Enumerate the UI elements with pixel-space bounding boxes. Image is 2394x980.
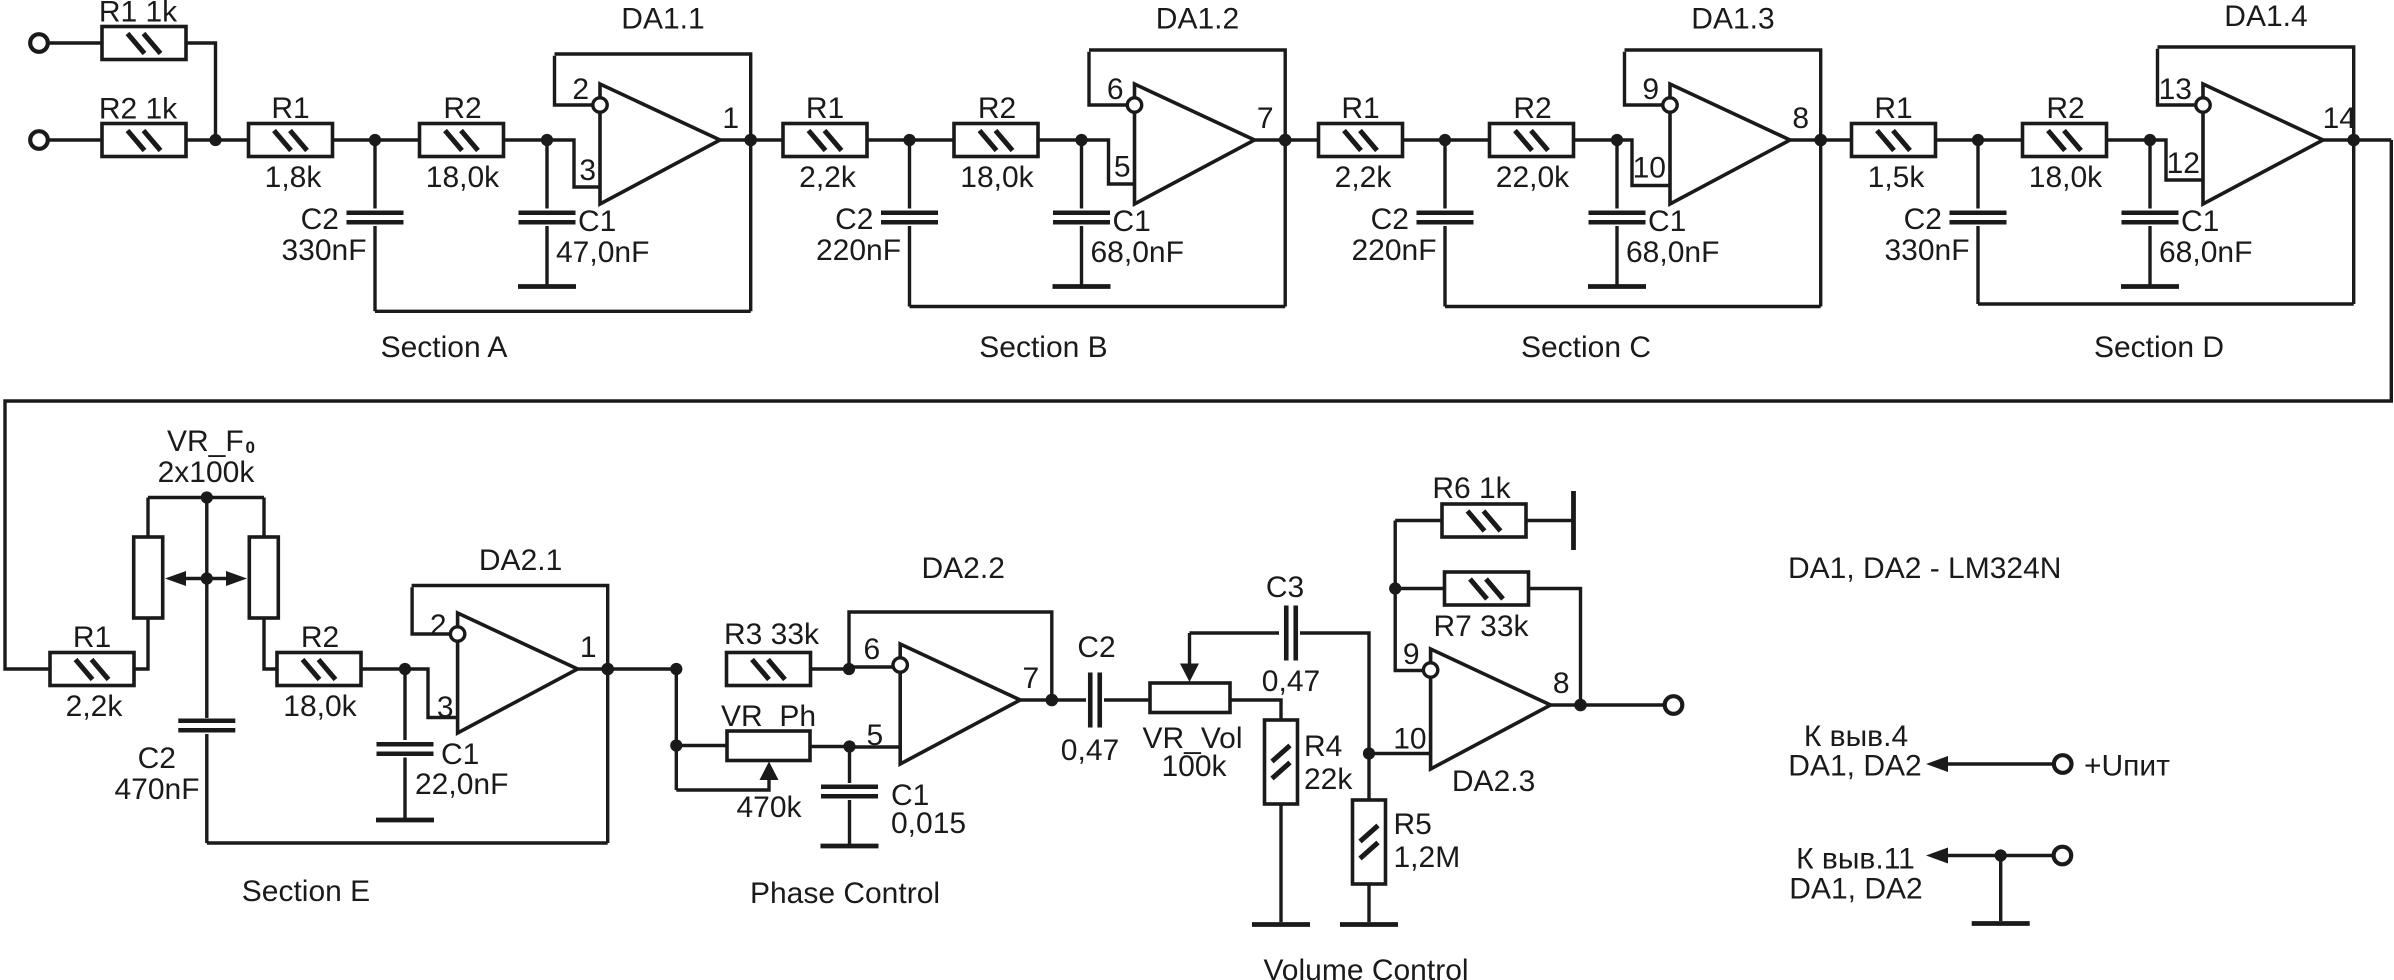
feedback bottom wire DA1.4 (1978, 302, 2354, 305)
section DA1.1: resistor R1 1,8k (249, 124, 333, 157)
svg-text:C1: C1 (2181, 205, 2219, 238)
svg-text:+Uпит: +Uпит (2084, 750, 2170, 783)
svg-text:К выв.4: К выв.4 (1804, 720, 1908, 753)
wire pin10 node down to R5 (1367, 754, 1370, 801)
svg-text:R2: R2 (2046, 92, 2084, 125)
svg-text:18,0k: 18,0k (2029, 161, 2103, 194)
capacitor C1 DA1.2 (1053, 210, 1110, 215)
junction R7 branch node (1389, 582, 1401, 594)
junction input node (209, 134, 221, 146)
wire node2 to non-inverting input DA1.4 (2150, 140, 2203, 180)
svg-text:VR_F: VR_F (167, 425, 244, 458)
svg-text:R1: R1 (806, 92, 844, 125)
svg-text:220nF: 220nF (1351, 234, 1436, 267)
capacitor C1 DA1.4 (2122, 210, 2179, 215)
feedback bottom wire DA1.1 (375, 310, 751, 313)
ground bar of C1 phase control (821, 844, 879, 849)
op-amp DA2.1 inverting input circle (450, 627, 464, 641)
op-amp DA1.3 inverting input circle (1663, 98, 1677, 112)
capacitor C1 22,0nF wire section E (403, 669, 406, 740)
junction phase input lower (670, 739, 682, 751)
resistor R2 18,0k section E (277, 653, 361, 686)
svg-text:330nF: 330nF (281, 234, 366, 267)
wire R2 to node2 DA1.3 (1574, 138, 1618, 141)
junction node section E (399, 663, 411, 675)
output junction DA2.1 (601, 663, 614, 676)
wire VR_Ph right to pin5 node (810, 745, 850, 748)
wire node2 to non-inverting input DA1.1 (547, 140, 600, 187)
wire R4 to ground (1279, 804, 1282, 922)
svg-text:Section C: Section C (1521, 331, 1651, 364)
svg-text:5: 5 (867, 719, 884, 752)
svg-text:7: 7 (1023, 662, 1040, 695)
svg-text:12: 12 (2167, 147, 2200, 180)
wire C1 to ground bar section E (403, 758, 406, 819)
svg-text:C3: C3 (1266, 571, 1304, 604)
capacitor C1 DA1.3 (1589, 210, 1646, 215)
resistor R2 1k (102, 124, 186, 157)
svg-text:14: 14 (2323, 102, 2356, 135)
output wire DA2.2 (1020, 698, 1086, 701)
wire C2 to feedback bottom DA1.3 (1443, 226, 1446, 307)
wire IN1 to R1 1k (48, 41, 102, 44)
power terminal +Upit (2054, 755, 2072, 773)
wire R2 to node2 DA1.2 (1038, 138, 1082, 141)
svg-text:100k: 100k (1161, 750, 1227, 783)
section DA1.3: resistor R2 22,0k (1490, 124, 1574, 157)
svg-text:18,0k: 18,0k (426, 161, 500, 194)
wire VR_Vol wiper to C3 (1190, 631, 1280, 634)
svg-text:DA2.2: DA2.2 (922, 552, 1005, 585)
wire to R6 (1395, 519, 1442, 522)
svg-text:1,5k: 1,5k (1868, 161, 1926, 194)
wire VR_Vol right to R4 (1230, 700, 1281, 720)
svg-text:R1: R1 (1341, 92, 1379, 125)
svg-text:C2: C2 (835, 203, 873, 236)
wire C3 to pin10 node (1300, 633, 1369, 754)
junction node1 DA1.4 (1972, 134, 1984, 146)
section DA1.4: resistor R1 1,5k (1852, 124, 1936, 157)
feedback bottom wire section E (207, 841, 608, 844)
svg-text:2: 2 (430, 609, 447, 642)
junction pin5 node (843, 740, 855, 752)
capacitor C2 DA1.3 (1417, 210, 1474, 215)
potentiometer VR_Ph (727, 731, 810, 761)
svg-text:R1: R1 (73, 621, 111, 654)
ground bar power (1972, 921, 2030, 926)
section DA1.2: resistor R2 18,0k (954, 124, 1038, 157)
svg-text:R3 33k: R3 33k (724, 618, 820, 651)
op-amp DA1.4 inverting input circle (2196, 98, 2210, 112)
ground arrow wire (1944, 854, 2054, 857)
svg-text:R2: R2 (1513, 92, 1551, 125)
op-amp DA1.2 triangle (1135, 84, 1255, 204)
capacitor C2 0,47 series (1088, 673, 1093, 728)
output junction DA1.1 (744, 134, 757, 147)
junction VR_F0 top node (201, 491, 213, 503)
junction pin10 node (1363, 747, 1375, 759)
svg-text:R2: R2 (978, 92, 1016, 125)
svg-text:DA1.3: DA1.3 (1691, 3, 1774, 36)
feedback top and right wire DA1.1 (555, 54, 751, 311)
svg-text:1: 1 (580, 631, 597, 664)
op-amp DA2.1 triangle (458, 613, 578, 733)
capacitor C1 68,0nF DA1.4 upper wire (2148, 140, 2151, 209)
svg-text:К выв.11: К выв.11 (1796, 843, 1915, 876)
svg-text:C2: C2 (301, 203, 339, 236)
svg-text:R4: R4 (1304, 730, 1342, 763)
wire R1 to node1 DA1.1 (333, 138, 421, 141)
svg-text:1,8k: 1,8k (265, 161, 323, 194)
wire IN2 to R2 1k (48, 138, 102, 141)
junction node2 DA1.2 (1075, 134, 1087, 146)
potentiometer VR_Vol (1150, 683, 1230, 713)
top node wire VR_F0 (148, 496, 264, 499)
op-amp DA1.2 inverting input stub and feedback left wire (1089, 52, 1127, 105)
svg-text:220nF: 220nF (816, 234, 901, 267)
svg-text:R2: R2 (301, 621, 339, 654)
ground bar R4 (1252, 922, 1310, 927)
junction ground node (1995, 849, 2007, 861)
VR_Ph wiper arrow (676, 776, 769, 790)
capacitor C1 47,0nF DA1.1 upper wire (545, 140, 548, 209)
wire R2 to node2 DA1.1 (504, 138, 548, 141)
svg-text:C1: C1 (578, 205, 616, 238)
svg-text:DA2.1: DA2.1 (479, 544, 562, 577)
op-amp DA1.3 triangle (1670, 84, 1790, 204)
op-amp DA2.1 inverting input stub and feedback left wire (412, 587, 450, 634)
svg-text:C2: C2 (1904, 203, 1942, 236)
wire R3 to pin6 node (811, 667, 850, 670)
wire right pot bottom to R2 (264, 618, 277, 669)
svg-text:DA2.3: DA2.3 (1452, 765, 1535, 798)
section DA1.1: resistor R2 18,0k (420, 124, 504, 157)
junction node2 DA1.4 (2144, 134, 2156, 146)
svg-text:9: 9 (1642, 73, 1659, 106)
svg-text:10: 10 (1633, 152, 1666, 185)
wire R1 to node1 DA1.2 (867, 138, 955, 141)
svg-text:2,2k: 2,2k (799, 161, 857, 194)
svg-text:0: 0 (246, 438, 255, 457)
op-amp DA2.3 inverting input circle (1423, 663, 1437, 677)
wire wrap-around from section D output to section E input (5, 140, 2391, 669)
wire C2 to feedback bottom DA1.4 (1976, 226, 1979, 304)
wire node to non-inverting input DA2.1 (405, 669, 458, 718)
svg-text:C2: C2 (138, 742, 176, 775)
op-amp DA1.4 inverting input stub and feedback left wire (2158, 49, 2196, 105)
terminal bar R6 (1571, 491, 1576, 550)
section DA1.3: resistor R1 2,2k (1319, 124, 1403, 157)
svg-text:C2: C2 (1371, 203, 1409, 236)
svg-text:R2: R2 (443, 92, 481, 125)
junction phase input upper (670, 663, 682, 675)
svg-text:VR_Ph: VR_Ph (721, 700, 816, 733)
wire inverting input DA2.3 up to R6/R7 (1395, 521, 1422, 671)
svg-text:2,2k: 2,2k (66, 690, 124, 723)
output wire DA1.1 (720, 138, 784, 141)
ground bar of C1 DA1.1 (518, 284, 576, 289)
svg-text:Section D: Section D (2094, 331, 2224, 364)
ground wire down (1999, 856, 2002, 922)
svg-text:DA1, DA2: DA1, DA2 (1788, 750, 1921, 783)
svg-text:470k: 470k (736, 791, 802, 824)
VR_F0 wiper double arrow (184, 577, 230, 580)
resistor R1 1k (102, 27, 186, 60)
svg-text:1: 1 (722, 102, 739, 135)
capacitor C2 330nF DA1.4 upper wire (1976, 140, 1979, 209)
output wire DA1.2 (1255, 138, 1319, 141)
capacitor C2 DA1.2 (881, 210, 938, 215)
svg-text:Section A: Section A (381, 331, 508, 364)
wire C2 to feedback bottom DA1.1 (373, 226, 376, 311)
ground bar of C1 section E (376, 818, 434, 823)
capacitor C1 68,0nF DA1.2 upper wire (1080, 140, 1083, 209)
capacitor C3 0,47 series (1284, 606, 1289, 661)
junction VR_F0 wiper node (201, 572, 213, 584)
dual potentiometer VR_F0 left element (134, 537, 163, 618)
wire to R7 (1395, 587, 1444, 590)
VR_F0 centre wire down to C2 (205, 498, 208, 719)
wire R2 1k to junction (186, 138, 249, 141)
output junction DA1.3 (1814, 134, 1827, 147)
output junction DA2.2 (1046, 694, 1059, 707)
capacitor C2 330nF DA1.1 upper wire (373, 140, 376, 209)
wire pin5 node to DA2.2 (850, 745, 901, 748)
svg-text:R1: R1 (271, 92, 309, 125)
junction node2 DA1.1 (541, 134, 553, 146)
feedback top and right wire DA1.4 (2158, 47, 2354, 304)
capacitor C1 68,0nF DA1.3 upper wire (1615, 140, 1618, 209)
wire C2 to feedback bottom section E (205, 734, 208, 843)
svg-text:22,0nF: 22,0nF (415, 768, 508, 801)
svg-text:2x100k: 2x100k (158, 456, 256, 489)
svg-text:22k: 22k (1304, 763, 1353, 796)
op-amp DA2.2 inverting input circle (893, 658, 907, 672)
svg-text:10: 10 (1393, 723, 1426, 756)
op-amp DA2.3 triangle (1431, 649, 1551, 769)
wire left pot top to node (146, 498, 149, 538)
wire R2 to node section E (361, 667, 405, 670)
capacitor C2 DA1.4 (1950, 210, 2007, 215)
op-amp DA1.3 inverting input stub and feedback left wire (1625, 52, 1663, 105)
svg-text:R7 33k: R7 33k (1433, 610, 1529, 643)
svg-text:7: 7 (1257, 102, 1274, 135)
capacitor C2 220nF DA1.2 upper wire (908, 140, 911, 209)
output terminal (1665, 696, 1683, 714)
svg-text:8: 8 (1553, 667, 1570, 700)
svg-text:6: 6 (1107, 73, 1124, 106)
svg-text:DA1, DA2 - LM324N: DA1, DA2 - LM324N (1788, 552, 2061, 585)
output junction DA2.3 (1574, 699, 1587, 712)
wire C2 to feedback bottom DA1.2 (908, 226, 911, 307)
ground terminal (2054, 847, 2072, 865)
wire pin10 node to DA2.3 (1369, 752, 1431, 755)
input terminal IN1 (30, 34, 48, 52)
svg-text:18,0k: 18,0k (960, 161, 1034, 194)
svg-text:0,47: 0,47 (1262, 665, 1320, 698)
wire C1 to ground bar phase control (848, 800, 851, 844)
svg-text:470nF: 470nF (114, 773, 199, 806)
capacitor C1 phase control (821, 784, 878, 789)
junction node1 DA1.2 (903, 134, 915, 146)
junction node2 DA1.3 (1611, 134, 1623, 146)
VR_Vol wiper arrow (1188, 633, 1191, 666)
svg-text:C1: C1 (1113, 205, 1151, 238)
wire C1 to ground bar DA1.2 (1080, 226, 1083, 285)
svg-text:47,0nF: 47,0nF (556, 236, 649, 269)
feedback bottom wire DA1.3 (1445, 305, 1821, 308)
svg-text:68,0nF: 68,0nF (1626, 236, 1719, 269)
resistor R6 1k (1442, 504, 1526, 537)
svg-text:DA1.2: DA1.2 (1156, 3, 1239, 36)
wire node2 to non-inverting input DA1.3 (1617, 140, 1670, 186)
wire VR_Ph left terminal (676, 744, 727, 747)
svg-text:Section E: Section E (242, 875, 370, 908)
svg-text:2: 2 (572, 73, 589, 106)
power arrow +Upit (1944, 762, 2054, 765)
svg-text:0,015: 0,015 (891, 807, 966, 840)
svg-text:13: 13 (2159, 73, 2192, 106)
svg-text:5: 5 (1114, 151, 1131, 184)
op-amp DA1.4 triangle (2203, 84, 2323, 204)
svg-text:1,2M: 1,2M (1394, 841, 1461, 874)
resistor R4 22k (1265, 720, 1298, 804)
resistor R1 2,2k section E (50, 653, 134, 686)
output wire DA1.3 (1790, 138, 1854, 141)
wire C1 to ground bar DA1.4 (2148, 226, 2151, 285)
feedback top and right wire DA2.2 (849, 612, 1052, 700)
op-amp DA1.1 inverting input circle (593, 98, 607, 112)
feedback top and right wire DA1.3 (1625, 50, 1821, 307)
wire R2 to node2 DA1.4 (2107, 138, 2151, 141)
wire right pot top to node (262, 498, 265, 538)
wire R6 to supply bar (1526, 519, 1574, 522)
op-amp DA2.2 triangle (900, 644, 1020, 764)
wire down to VR_Ph branch (675, 669, 678, 790)
dual potentiometer VR_F0 right element (249, 537, 278, 618)
wire R1 to node1 DA1.3 (1403, 138, 1491, 141)
junction node1 DA1.1 (369, 134, 381, 146)
svg-text:6: 6 (864, 633, 881, 666)
output wire DA2.3 (1551, 703, 1665, 706)
wire pin6 node to inverting input DA2.2 (849, 665, 892, 668)
ground bar of C1 DA1.3 (1588, 284, 1646, 289)
ground bar of C1 DA1.2 (1053, 284, 1111, 289)
output junction DA1.4 (2347, 134, 2360, 147)
capacitor C2 220nF DA1.3 upper wire (1443, 140, 1446, 209)
svg-text:R5: R5 (1394, 808, 1432, 841)
wire C1 to ground bar DA1.3 (1615, 226, 1618, 285)
svg-text:330nF: 330nF (1884, 234, 1969, 267)
svg-text:C1: C1 (441, 738, 479, 771)
svg-text:R2 1k: R2 1k (99, 93, 178, 126)
wire C1 to ground bar DA1.1 (545, 226, 548, 285)
svg-text:3: 3 (579, 154, 596, 187)
capacitor C2 DA1.1 (347, 210, 404, 215)
section DA1.2: resistor R1 2,2k (783, 124, 867, 157)
svg-text:DA1, DA2: DA1, DA2 (1789, 873, 1922, 906)
op-amp DA1.1 triangle (600, 84, 720, 204)
svg-text:Volume Control: Volume Control (1263, 954, 1468, 980)
svg-text:R1: R1 (1874, 92, 1912, 125)
wire node2 to non-inverting input DA1.2 (1082, 140, 1135, 184)
op-amp DA1.1 inverting input stub and feedback left wire (555, 56, 593, 105)
svg-text:68,0nF: 68,0nF (1091, 236, 1184, 269)
svg-text:C1: C1 (1648, 205, 1686, 238)
op-amp DA1.2 inverting input circle (1127, 98, 1141, 112)
capacitor C1 0,015 wire (848, 747, 851, 784)
wire C2 to VR_Vol (1104, 698, 1150, 701)
resistor R7 33k (1445, 572, 1529, 605)
capacitor C1 section E (377, 742, 434, 747)
wire R5 to ground (1367, 884, 1370, 922)
input terminal IN2 (30, 131, 48, 149)
capacitor C1 DA1.1 (519, 210, 576, 215)
output junction DA1.2 (1279, 134, 1292, 147)
wire R1 to left pot bottom (134, 618, 148, 669)
wire R7 to output node (1529, 589, 1581, 706)
svg-text:22,0k: 22,0k (1496, 161, 1570, 194)
svg-text:3: 3 (437, 691, 454, 724)
svg-text:R6 1k: R6 1k (1432, 472, 1511, 505)
svg-text:Section B: Section B (979, 331, 1107, 364)
svg-text:Phase Control: Phase Control (750, 877, 940, 910)
feedback top and right wire DA2.1 (412, 586, 608, 844)
junction node1 DA1.3 (1439, 134, 1451, 146)
svg-text:9: 9 (1403, 638, 1420, 671)
wire R1 1k to junction (186, 43, 216, 140)
ground bar R5 (1340, 922, 1398, 927)
capacitor C2 470nF section E (178, 718, 235, 723)
svg-text:DA1.4: DA1.4 (2224, 0, 2307, 33)
svg-text:0,47: 0,47 (1061, 734, 1119, 767)
ground bar of C1 DA1.4 (2121, 284, 2179, 289)
wire R1 to node1 DA1.4 (1936, 138, 2024, 141)
junction pin6 node (843, 663, 855, 675)
svg-text:DA1.1: DA1.1 (621, 3, 704, 36)
feedback top and right wire DA1.2 (1089, 50, 1285, 307)
svg-text:18,0k: 18,0k (283, 690, 357, 723)
svg-text:2,2k: 2,2k (1335, 161, 1393, 194)
section DA1.4: resistor R2 18,0k (2023, 124, 2107, 157)
feedback bottom wire DA1.2 (910, 305, 1286, 308)
resistor R3 33k (727, 653, 811, 686)
resistor R5 1,2M (1353, 800, 1386, 884)
output wire DA2.1 (578, 667, 677, 670)
svg-text:R1 1k: R1 1k (99, 0, 178, 29)
svg-text:C2: C2 (1077, 631, 1115, 664)
svg-text:8: 8 (1792, 102, 1809, 135)
output wire DA1.4 (2323, 138, 2391, 141)
svg-text:68,0nF: 68,0nF (2159, 236, 2252, 269)
